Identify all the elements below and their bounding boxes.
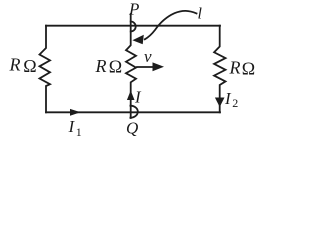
svg-text:R: R — [95, 56, 107, 76]
svg-text:Q: Q — [126, 119, 138, 138]
svg-text:l: l — [198, 5, 203, 22]
svg-text:Ω: Ω — [242, 59, 255, 79]
svg-text:Ω: Ω — [23, 56, 36, 76]
svg-text:2: 2 — [232, 96, 238, 110]
svg-text:R: R — [9, 55, 21, 75]
svg-text:R: R — [229, 58, 241, 78]
svg-text:P: P — [128, 0, 139, 19]
svg-text:Ω: Ω — [109, 57, 122, 77]
svg-text:1: 1 — [76, 125, 82, 139]
svg-text:v: v — [144, 47, 152, 66]
